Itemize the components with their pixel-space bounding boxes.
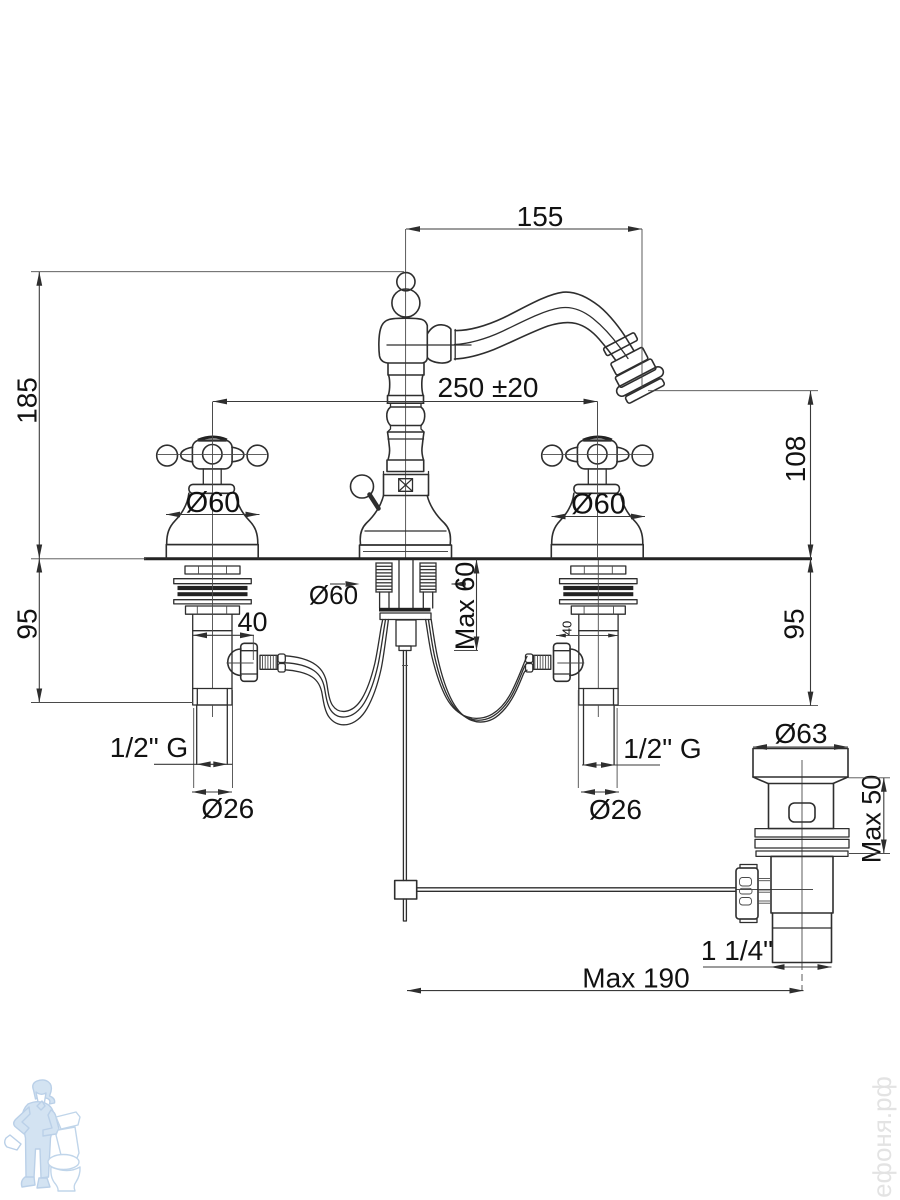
drain upper body xyxy=(769,784,834,829)
node: faucet centerline xyxy=(405,229,407,559)
thread hatch between nut and body xyxy=(758,879,770,904)
pop-up rod housing xyxy=(396,620,416,646)
center bell base xyxy=(360,545,452,559)
right handle centerline xyxy=(597,402,599,559)
column bottom collar xyxy=(387,460,424,472)
column small step xyxy=(391,403,422,407)
column bead xyxy=(387,407,425,426)
svg-text:Max 190: Max 190 xyxy=(582,963,689,994)
aerator bulge xyxy=(615,365,665,398)
svg-text:Ø26: Ø26 xyxy=(201,793,254,824)
center seal band xyxy=(379,608,431,612)
faucet body xyxy=(379,318,427,363)
aerator band 3 xyxy=(615,358,657,388)
spout middle line xyxy=(455,307,629,358)
mounting bracket bar xyxy=(380,613,431,620)
svg-text:ефоня.рф: ефоня.рф xyxy=(867,1076,897,1198)
svg-text:40: 40 xyxy=(237,607,267,637)
center bell xyxy=(360,496,450,546)
svg-text:185: 185 xyxy=(12,377,43,424)
column ring at dim line xyxy=(387,396,423,404)
drain centerline xyxy=(801,760,803,963)
pop-up rod xyxy=(402,651,404,881)
aerator ring 1 xyxy=(603,332,638,356)
ball finial lower xyxy=(392,289,420,317)
knurled lock nut xyxy=(736,868,758,919)
watermark: plumber logo bottom-left xyxy=(5,1080,59,1188)
svg-text:Ø63: Ø63 xyxy=(775,718,828,749)
svg-text:1 1/4": 1 1/4" xyxy=(701,935,773,966)
column lower cylinder xyxy=(388,432,425,460)
spout upper wall xyxy=(455,292,634,351)
overflow slot xyxy=(789,803,815,822)
pop-up lever stem xyxy=(370,495,379,509)
X-box symbol xyxy=(399,479,413,492)
drain washer 2 xyxy=(755,839,849,848)
drain chamfer xyxy=(753,777,848,784)
svg-text:40: 40 xyxy=(560,621,575,635)
svg-text:95: 95 xyxy=(779,608,810,639)
valve block xyxy=(384,475,429,496)
drain tailpipe xyxy=(773,913,832,963)
drain washer 1 xyxy=(755,829,849,837)
aerator band 2 xyxy=(610,347,648,376)
ball finial top xyxy=(397,273,415,291)
svg-text:Ø26: Ø26 xyxy=(589,794,642,825)
right threaded rod xyxy=(420,563,436,592)
rod lower stub xyxy=(403,899,406,921)
left threaded rod xyxy=(376,563,392,592)
drain washer 3 xyxy=(756,851,848,856)
pop-up lever ball xyxy=(351,475,374,498)
svg-text:1/2" G: 1/2" G xyxy=(110,732,188,763)
right hose connector (mirrored) xyxy=(526,643,585,681)
svg-text:108: 108 xyxy=(780,436,811,483)
drain lower body xyxy=(771,856,833,913)
svg-text:Ø60: Ø60 xyxy=(571,489,626,521)
svg-text:250 ±20: 250 ±20 xyxy=(437,372,538,403)
drain top flange xyxy=(753,749,848,778)
svg-text:1/2" G: 1/2" G xyxy=(623,733,701,764)
spout root xyxy=(427,325,451,363)
horizontal actuating rod xyxy=(417,887,736,889)
column neck 2 xyxy=(388,426,425,433)
spout horizontal centerline xyxy=(387,344,471,346)
left hose connector xyxy=(227,643,286,681)
spout lower wall xyxy=(455,323,616,360)
svg-text:155: 155 xyxy=(517,201,564,232)
left handle centerline xyxy=(212,402,214,559)
center shank tubes xyxy=(398,560,400,608)
column waist xyxy=(388,375,423,396)
aerator tip ring xyxy=(625,378,665,404)
rod clamp block xyxy=(395,881,417,900)
svg-text:95: 95 xyxy=(12,608,43,639)
column neck section 1 xyxy=(388,363,424,375)
